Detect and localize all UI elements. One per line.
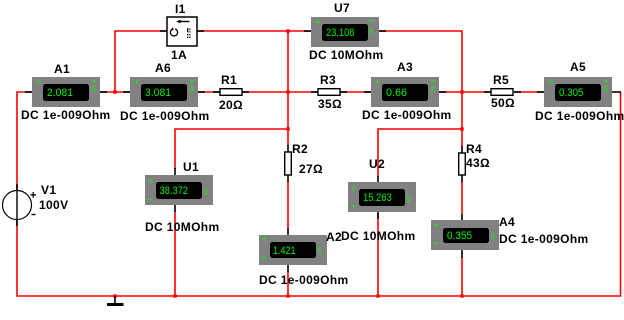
svg-text:+: + [262,234,267,244]
value 27 ohm [299,162,323,176]
voltmeter U1 [145,175,213,205]
svg-text:R4: R4 [466,142,482,156]
label A1 [54,62,70,76]
label R4 [466,142,482,156]
svg-text:+: + [134,77,139,87]
svg-text:0.66: 0.66 [386,87,407,99]
svg-text:+: + [375,77,380,87]
wire left rail and bottom rail and right rail [17,92,621,296]
svg-text:A: A [190,84,195,94]
svg-text:35Ω: 35Ω [318,97,342,111]
svg-text:R1: R1 [221,73,237,87]
label A3 [397,60,413,74]
svg-text:V: V [407,194,412,204]
svg-text:23.108: 23.108 [326,27,355,39]
junction U2 at rail [376,294,379,297]
svg-text:1.421: 1.421 [273,245,296,257]
label R3 [320,73,336,87]
label I1 [175,2,186,16]
resistor R2 [285,152,292,175]
svg-text:A: A [491,232,496,242]
junction at 288,31 [286,29,289,32]
junction at 462,129 [460,127,463,130]
label A2 rating [259,273,349,287]
label A4 rating [499,232,589,246]
label A6 [155,61,171,75]
svg-text:A1: A1 [54,62,70,76]
svg-text:R5: R5 [493,73,509,87]
svg-text:DC 10MOhm: DC 10MOhm [145,220,220,234]
svg-text:43Ω: 43Ω [466,156,490,170]
wire A6 to R1 [198,91,220,93]
label A2 [326,230,342,244]
svg-text:1A: 1A [171,48,187,62]
junction A4 at rail [460,294,463,297]
label A5 [570,60,586,74]
wire I1 to U7 [197,30,311,32]
label U7 rating [309,48,384,62]
wire A1 to A6 [100,91,130,93]
resistor R4 [459,153,466,175]
svg-text:DC 1e-009Ohm: DC 1e-009Ohm [362,108,452,122]
svg-text:50Ω: 50Ω [491,96,515,110]
wire y129 left to U1 [175,129,288,169]
svg-text:27Ω: 27Ω [299,162,323,176]
value 50 ohm [491,96,515,110]
ammeter A4 [431,220,499,250]
junction at 288,92 [286,90,289,93]
svg-text:DC 1e-009Ohm: DC 1e-009Ohm [535,109,624,123]
svg-text:DC 1e-009Ohm: DC 1e-009Ohm [259,273,349,287]
resistor R3 [318,89,340,96]
label U2 [369,157,385,171]
wire R1 to R3 [242,91,318,93]
label A5 rating [535,109,624,123]
resistor R1 [220,89,242,96]
svg-text:A: A [318,245,323,255]
wire A3 to R5 [439,91,491,93]
wire U1 bottom to rail [174,211,176,296]
label U7 [334,1,350,15]
ammeter A2 [259,234,327,266]
value 35 ohm [318,97,342,111]
voltmeter U7 [311,17,379,48]
value 100V [39,198,68,212]
label A3 rating [362,108,452,122]
svg-text:U2: U2 [369,157,385,171]
svg-text:100V: 100V [39,198,68,212]
svg-text:DC 1e-009Ohm: DC 1e-009Ohm [21,108,111,122]
label R2 [292,142,308,156]
value 43 ohm [466,156,490,170]
svg-text:DC 10MOhm: DC 10MOhm [341,229,416,243]
wire R5 to A5 [514,91,544,93]
svg-text:DC 10MOhm: DC 10MOhm [309,48,384,62]
svg-text:R3: R3 [320,73,336,87]
svg-text:38.372: 38.372 [160,185,189,197]
svg-text:0.305: 0.305 [559,87,584,99]
voltmeter U2 [348,182,416,212]
wire R3 to A3 [340,91,371,93]
wire A4 to rail [461,257,463,296]
svg-text:R2: R2 [292,142,308,156]
junction at A1-A6 node [113,90,116,93]
svg-text:+: + [548,77,553,87]
voltage source V1 [3,190,37,220]
svg-text:A2: A2 [326,230,342,244]
svg-text:3.081: 3.081 [145,87,171,99]
label A4 [499,215,515,229]
wire A2 to rail [287,271,289,296]
svg-text:15.263: 15.263 [363,192,392,204]
label V1 [41,183,56,197]
ammeter A6 [130,77,198,108]
svg-text:A: A [92,84,97,94]
wire U7 right to x462 down [379,31,462,147]
label U1 [183,160,199,174]
resistor R5 [491,89,513,96]
label U2 rating [341,229,416,243]
wire U2 bottom to rail [377,213,379,296]
ground [107,296,124,306]
svg-text:20Ω: 20Ω [219,98,243,112]
label R5 [493,73,509,87]
svg-text:U7: U7 [334,1,350,15]
svg-text:+: + [148,176,153,186]
label R1 [221,73,237,87]
junction at 288,129 [286,127,289,130]
wire R4 to A4 [461,181,463,214]
ammeter A5 [544,77,612,108]
svg-text:DC 1e-009Ohm: DC 1e-009Ohm [120,109,210,123]
svg-text:V1: V1 [41,183,56,197]
junction A2 at rail [286,294,289,297]
svg-text:A: A [604,84,609,94]
svg-text:A5: A5 [570,60,586,74]
junction U1 at rail [173,294,176,297]
svg-text:DC 1e-009Ohm: DC 1e-009Ohm [499,232,589,246]
wire junction A1A6 up to I1 [115,31,167,92]
ammeter A1 [32,77,100,108]
component pin stubs (black) [17,31,621,272]
junction at 462,92 [460,90,463,93]
svg-text:2.081: 2.081 [47,87,73,99]
wire vertical x288 top [287,31,289,146]
svg-text:A4: A4 [499,215,515,229]
svg-text:V: V [369,26,374,36]
svg-text:+: + [434,220,439,230]
svg-text:V: V [204,187,209,197]
wire y129 right U2 branch [378,129,462,177]
svg-text:A6: A6 [155,61,171,75]
label U1 rating [145,220,220,234]
ammeter A3 [371,77,439,108]
svg-text:0.355: 0.355 [447,230,472,242]
junction ground node [113,294,116,297]
value 1A [171,48,187,62]
wire R2 to A2 [287,181,289,229]
svg-text:I1: I1 [175,2,186,16]
svg-text:U1: U1 [183,160,199,174]
svg-text:A: A [431,84,436,94]
svg-text:+: + [315,17,320,27]
svg-text:+: + [351,183,356,193]
svg-text:A3: A3 [397,60,413,74]
value 20 ohm [219,98,243,112]
current source I1 [167,17,197,46]
label A1 rating [21,108,111,122]
label A6 rating [120,109,210,123]
svg-text:+: + [36,77,41,87]
